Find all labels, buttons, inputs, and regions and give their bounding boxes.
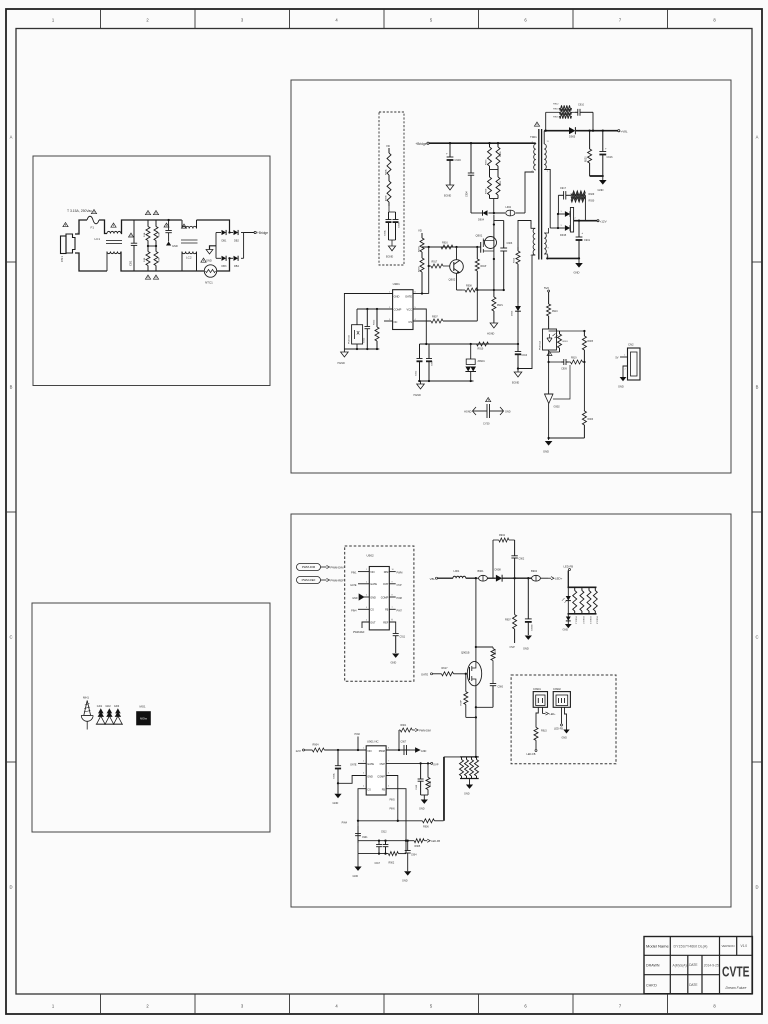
svg-text:GATE: GATE xyxy=(367,763,374,766)
wire opto cathode xyxy=(547,350,549,394)
svg-text:GND: GND xyxy=(562,737,568,740)
led connector dashed box xyxy=(511,675,616,764)
svg-text:PWM-DIM: PWM-DIM xyxy=(331,565,345,569)
svg-text:CB1: CB1 xyxy=(129,260,133,266)
CVTE slogan Dream Future xyxy=(726,986,747,990)
wire 12V snubber right leg xyxy=(584,195,586,220)
resistor R2B xyxy=(154,246,161,271)
svg-text:LED-FB: LED-FB xyxy=(527,753,536,756)
junction dot boost out xyxy=(513,577,529,579)
dimming controller dashed box xyxy=(345,546,414,681)
net label VD2 xyxy=(418,229,422,233)
wire bridge top row xyxy=(216,232,244,234)
svg-text:GND: GND xyxy=(353,875,359,878)
svg-text:R9L8-4: R9L8-4 xyxy=(595,617,597,625)
wire LED-FB stub xyxy=(567,571,569,588)
svg-text:OVP: OVP xyxy=(383,583,389,586)
junction dot CY1 top xyxy=(167,219,169,221)
svg-text:C905: C905 xyxy=(432,360,434,366)
wire comp rail upper xyxy=(358,840,407,842)
svg-text:VIN: VIN xyxy=(367,750,371,753)
svg-text:A: A xyxy=(10,135,13,140)
junction dot bridge top xyxy=(228,231,230,259)
resistor R916 gate xyxy=(441,242,453,250)
thermistor NTC1 xyxy=(204,265,216,285)
wire Q901B drain xyxy=(475,578,477,661)
wire sense bank bottom bar xyxy=(460,778,479,780)
wire AC top rail after LC2 xyxy=(197,220,230,233)
svg-text:U901: U901 xyxy=(393,282,401,286)
svg-text:REF: REF xyxy=(383,621,388,624)
svg-text:GND: GND xyxy=(421,750,427,753)
port PWM-REF xyxy=(297,577,345,584)
ferrite bead L902 xyxy=(506,206,515,216)
svg-text:CHK'D: CHK'D xyxy=(646,984,657,988)
svg-text:C901: C901 xyxy=(362,837,368,839)
capacitor C901 12V filter xyxy=(576,221,591,259)
shunt regulator G902 TL431 xyxy=(545,365,571,440)
svg-text:OVP: OVP xyxy=(433,762,439,766)
svg-text:R90A: R90A xyxy=(385,169,388,175)
ground GND C904 xyxy=(402,871,411,882)
wire lower diode row xyxy=(550,227,565,229)
resistor R90B startup xyxy=(386,177,392,206)
wire comp vertical left xyxy=(357,821,359,854)
svg-text:CS: CS xyxy=(367,789,371,792)
ferrite bead B901 xyxy=(476,569,496,581)
svg-text:B902: B902 xyxy=(531,569,538,573)
wire gate vertical main xyxy=(428,247,430,294)
resistor R905b fb xyxy=(406,839,440,848)
port PWM-DIM xyxy=(297,564,345,571)
title block DATE 2 xyxy=(689,983,697,987)
wire upper diode row xyxy=(557,213,565,229)
svg-text:EGND: EGND xyxy=(386,256,393,259)
svg-text:LED+: LED+ xyxy=(555,577,563,581)
wire AC top rail xyxy=(75,220,107,234)
row tick dividers xyxy=(6,262,762,762)
net label GATE entry xyxy=(421,673,442,677)
svg-text:C90A: C90A xyxy=(333,773,336,779)
title block version value xyxy=(741,944,748,948)
svg-text:C904: C904 xyxy=(411,855,417,857)
svg-text:DRAWN: DRAWN xyxy=(646,964,660,968)
svg-text:C90B: C90B xyxy=(399,222,401,228)
svg-text:CN1: CN1 xyxy=(60,256,64,262)
resistor R906fb xyxy=(582,362,593,438)
wire aux bottom pin xyxy=(518,255,535,369)
snubber R900 C900 xyxy=(476,647,504,707)
wire 12V snubber left leg xyxy=(557,195,559,214)
wire clamp mid bar xyxy=(490,169,499,171)
svg-text:C: C xyxy=(9,635,12,640)
warning triangle above CY1 xyxy=(164,223,169,227)
wire U901 pin2 COMP xyxy=(357,308,393,310)
diode DB2 xyxy=(234,230,240,243)
svg-text:GND: GND xyxy=(464,793,470,796)
svg-text:A(M)G(A)B: A(M)G(A)B xyxy=(673,964,690,968)
svg-text:PIN1: PIN1 xyxy=(351,572,357,575)
diode D915 dual rectifier xyxy=(560,208,577,237)
svg-text:Q902: Q902 xyxy=(449,278,456,282)
fuse rating label T3.15A 250Vac xyxy=(67,209,92,213)
svg-text:LED+: LED+ xyxy=(550,713,557,716)
svg-text:HGND: HGND xyxy=(414,394,422,397)
svg-text:+V8L: +V8L xyxy=(621,129,628,133)
svg-text:R916: R916 xyxy=(442,242,448,245)
svg-text:PC901-A: PC901-A xyxy=(539,341,542,350)
svg-text:V8L: V8L xyxy=(430,577,436,581)
ic U902 pin text xyxy=(370,571,388,624)
wire U902 pin4 xyxy=(351,609,369,612)
svg-text:G902: G902 xyxy=(554,406,561,409)
resistor R906b xyxy=(422,819,443,829)
ic U901B xyxy=(366,740,386,796)
net label VD top xyxy=(386,144,390,148)
svg-text:R1A: R1A xyxy=(143,232,146,237)
wire sense to CS row xyxy=(444,757,460,821)
capacitor C916 output xyxy=(599,131,613,176)
capacitor C90B startup xyxy=(389,212,401,246)
ground bar secondary output xyxy=(590,175,604,177)
transistor Q901B boost MOSFET xyxy=(461,651,482,686)
warning triangle above CB1 xyxy=(129,233,134,237)
svg-text:R90F: R90F xyxy=(500,180,502,186)
capacitor C905 VCC xyxy=(426,344,434,381)
resistor R901fb xyxy=(549,331,569,352)
resistor R901dim xyxy=(399,724,431,750)
wire Q902 collector xyxy=(456,247,458,260)
ground GND ovp xyxy=(419,800,428,811)
svg-text:DIM: DIM xyxy=(384,571,389,574)
svg-text:R902: R902 xyxy=(389,862,395,865)
resistor R90H gate chain b xyxy=(419,255,425,294)
resistor R917 base xyxy=(428,261,450,269)
wire CN2 pin1 xyxy=(615,355,627,360)
column tick dividers xyxy=(101,9,668,1014)
wire VCC ground rail xyxy=(418,380,474,382)
svg-text:C902: C902 xyxy=(519,558,525,561)
ground GND CN902 xyxy=(562,730,570,740)
title block DATE 1 xyxy=(689,963,697,967)
inductor L901 xyxy=(453,569,476,578)
svg-text:C: C xyxy=(755,635,758,640)
svg-text:R90H: R90H xyxy=(419,266,421,272)
transformer T901 secondary winding xyxy=(544,141,549,173)
svg-text:PIN5: PIN5 xyxy=(390,800,396,802)
svg-text:C912: C912 xyxy=(381,832,387,834)
resistor R90E clamp c xyxy=(486,170,492,199)
svg-text:PC901-B: PC901-B xyxy=(349,335,351,344)
svg-text:COMP: COMP xyxy=(381,596,389,599)
wire opto rail xyxy=(344,348,379,350)
ground GND C905E xyxy=(523,636,532,651)
ic U902 pin numbers xyxy=(366,569,395,621)
junction dot boost switch node xyxy=(475,577,477,579)
svg-text:R906: R906 xyxy=(588,419,594,421)
warning triangle at CN1 xyxy=(63,223,68,227)
wire U901B pin8 PWM xyxy=(386,749,410,751)
capacitor C90A startup xyxy=(384,206,396,240)
resistor R91P gate pulldown xyxy=(475,247,486,290)
wire Q901 drain channel xyxy=(493,215,495,292)
svg-text:VIN: VIN xyxy=(370,571,374,574)
ground flag U902 pin3 xyxy=(352,594,369,600)
svg-text:C917: C917 xyxy=(560,187,567,190)
ic U902 xyxy=(367,554,390,630)
wire U901B pin3 GND xyxy=(338,776,366,784)
diode D908 boost xyxy=(495,568,515,582)
wire pin7 to lower diode row xyxy=(544,170,550,229)
ground GND C911 xyxy=(391,654,400,665)
resistor R91C xyxy=(547,292,559,329)
ground EGND bulk cap xyxy=(444,185,454,198)
ground GND TL431 xyxy=(543,441,552,454)
capacitor C912 comp xyxy=(364,309,371,349)
warning triangle above LC1 xyxy=(111,223,116,227)
svg-text:GD3: GD3 xyxy=(114,704,120,708)
svg-text:C917: C917 xyxy=(375,863,381,865)
capacitor C904 clamp xyxy=(466,143,475,213)
ground lugs GD1 GD2 GD3 xyxy=(96,704,123,724)
net stub PIN5 PIN6 xyxy=(390,800,396,811)
svg-text:OVP: OVP xyxy=(380,763,386,766)
junction dots discharge resistors xyxy=(147,245,157,247)
wire FB row xyxy=(549,361,561,363)
svg-text:CS: CS xyxy=(370,609,374,612)
svg-text:R90E: R90E xyxy=(486,188,488,194)
node +V8L xyxy=(618,129,628,133)
resistor R907 CS xyxy=(431,316,477,324)
wire CN901 pin1 xyxy=(536,707,538,727)
svg-text:R914: R914 xyxy=(514,257,516,263)
capacitor CY1 Y-cap with GND xyxy=(165,220,177,248)
wire lower secondary pins xyxy=(544,228,548,258)
svg-text:C90B: C90B xyxy=(416,784,418,790)
svg-text:R906: R906 xyxy=(423,826,429,829)
svg-text:R91C: R91C xyxy=(552,311,558,313)
svg-text:GND: GND xyxy=(523,647,529,651)
svg-text:DB4: DB4 xyxy=(234,265,239,268)
resistor R905fb xyxy=(560,330,594,362)
svg-text:Dream Future: Dream Future xyxy=(726,986,747,990)
transistor Q901 MOSFET xyxy=(476,234,497,253)
svg-text:R908: R908 xyxy=(466,285,472,288)
net label LED-FB top xyxy=(564,565,574,571)
ground GND output xyxy=(598,176,607,192)
resistor R90F clamp d xyxy=(496,170,502,199)
svg-text:D: D xyxy=(755,885,758,890)
svg-text:R905: R905 xyxy=(415,845,421,848)
svg-text:R912: R912 xyxy=(553,104,559,106)
svg-text:GND: GND xyxy=(598,188,604,192)
svg-text:GATE: GATE xyxy=(405,295,412,299)
svg-text:D: D xyxy=(9,885,12,890)
svg-text:GND: GND xyxy=(574,271,580,275)
svg-text:DB2: DB2 xyxy=(234,240,239,243)
svg-text:T 3.15A, 250Vac: T 3.15A, 250Vac xyxy=(67,209,92,213)
svg-text:PIN7: PIN7 xyxy=(397,609,403,612)
transformer T901 core xyxy=(539,129,542,260)
resistor R90P gate pulldown xyxy=(461,673,476,718)
svg-text:DB3: DB3 xyxy=(222,265,227,268)
svg-text:HGND: HGND xyxy=(464,411,472,414)
wire AC top rail after LC1 xyxy=(121,220,181,234)
resistor R920 output bleeder xyxy=(586,131,592,176)
svg-text:CN2: CN2 xyxy=(628,343,634,347)
svg-text:MGfw: MGfw xyxy=(140,717,147,721)
svg-text:2014-9-25: 2014-9-25 xyxy=(704,964,719,968)
wire 12V return rail xyxy=(546,257,580,259)
svg-text:D915: D915 xyxy=(560,233,567,237)
svg-text:F1: F1 xyxy=(91,226,95,230)
svg-text:GND: GND xyxy=(367,775,373,778)
connector CN2 xyxy=(628,343,641,381)
wire bridge bottom row xyxy=(216,257,244,259)
wire gate to Q901 xyxy=(477,246,480,248)
svg-text:OUT: OUT xyxy=(370,621,376,624)
svg-text:R900: R900 xyxy=(495,649,497,655)
diode DB3 xyxy=(222,256,227,268)
logo block MG1 xyxy=(137,705,151,726)
wire output rail +V8L xyxy=(544,130,617,132)
svg-text:Q901B: Q901B xyxy=(461,651,470,655)
svg-text:PIN2: PIN2 xyxy=(355,733,361,736)
svg-text:R917: R917 xyxy=(432,261,438,264)
wire U902 pin7 FB xyxy=(389,609,402,612)
ic U901 PWM controller xyxy=(393,282,413,330)
wire clamp bottom bar xyxy=(490,199,499,214)
svg-text:R917: R917 xyxy=(442,667,449,670)
wire LED bank top bar xyxy=(568,586,597,588)
diode D904 clamp xyxy=(478,210,488,221)
wire aux top pin xyxy=(518,221,535,248)
capacitor C911 ref xyxy=(393,633,406,654)
ic U901 pin text xyxy=(394,295,413,325)
diode DB1 xyxy=(222,230,227,243)
resistor R90B2 ovp xyxy=(426,763,432,795)
wire U901B pin6 COMP xyxy=(386,776,398,821)
diode D906 VCC feed xyxy=(512,247,521,344)
wire CS row to sense bank xyxy=(443,757,445,821)
ground GND 12V xyxy=(574,258,583,274)
svg-text:CY50: CY50 xyxy=(483,422,490,426)
ground GND sense bank xyxy=(464,779,473,796)
svg-text:R929: R929 xyxy=(589,193,595,196)
svg-text:R930: R930 xyxy=(589,200,595,203)
fuse F1 xyxy=(87,216,99,229)
resistor sense bank RS1-RS4 xyxy=(460,757,479,779)
svg-text:C911: C911 xyxy=(400,636,406,639)
node +Bridge output xyxy=(244,231,269,235)
mounting hole MH1 xyxy=(81,696,93,730)
svg-text:HGND: HGND xyxy=(338,362,346,365)
svg-text:GND: GND xyxy=(206,259,212,263)
svg-text:C901: C901 xyxy=(584,239,591,242)
svg-text:R90C: R90C xyxy=(486,159,488,165)
svg-text:C902: C902 xyxy=(416,370,418,376)
optocoupler PC901-A xyxy=(539,329,558,350)
warning triangle above F1 xyxy=(91,210,96,214)
row letters A-D xyxy=(9,135,758,890)
svg-text:C912: C912 xyxy=(364,337,366,343)
svg-text:OVP: OVP xyxy=(510,646,516,649)
wire LED bank bottom bar xyxy=(568,613,597,615)
wire U902 pin6 REF xyxy=(389,619,395,633)
svg-text:GND: GND xyxy=(402,880,408,883)
common mode choke LC1 xyxy=(94,231,122,253)
svg-text:U901 NC: U901 NC xyxy=(367,740,379,744)
capacitor C905E out xyxy=(525,578,534,635)
transformer T901 primary winding xyxy=(532,142,536,173)
svg-text:R913: R913 xyxy=(553,109,559,111)
svg-text:C904: C904 xyxy=(466,191,469,197)
capacitor C906 drain snubber xyxy=(494,221,513,292)
net label 12V entry xyxy=(296,749,313,753)
svg-text:C910: C910 xyxy=(578,104,585,107)
svg-text:DB1: DB1 xyxy=(222,240,227,243)
resistor R904 input xyxy=(312,744,366,753)
capacitor C901b xyxy=(355,826,368,843)
svg-text:NC: NC xyxy=(394,320,398,324)
svg-text:D906: D906 xyxy=(512,310,514,316)
resistor R922 comp xyxy=(374,309,380,349)
svg-text:R2B: R2B xyxy=(159,257,161,262)
resistor bank R9L1-R9L4 xyxy=(573,587,598,614)
svg-text:A: A xyxy=(756,135,759,140)
svg-text:D908: D908 xyxy=(495,568,502,572)
capacitor C903 bulk xyxy=(446,143,461,185)
svg-text:R90B: R90B xyxy=(430,780,432,786)
svg-text:R90G: R90G xyxy=(419,246,421,252)
svg-text:PIN8: PIN8 xyxy=(397,597,403,600)
warning triangle below opto xyxy=(547,352,552,356)
svg-text:PWM: PWM xyxy=(379,750,385,753)
transformer T901 aux winding xyxy=(531,223,536,257)
wire U901B pin2 GATE xyxy=(350,763,366,766)
capacitor C916B VCC xyxy=(515,344,528,370)
svg-text:GATE: GATE xyxy=(350,584,357,587)
svg-text:VD: VD xyxy=(418,229,422,233)
warning triangles below discharge resistors xyxy=(145,275,158,279)
wire primary top pin xyxy=(534,142,536,144)
resistor R908 xyxy=(462,285,478,293)
svg-text:PWM-REF: PWM-REF xyxy=(353,631,365,634)
svg-text:C916: C916 xyxy=(607,156,614,159)
wire VCC rail xyxy=(420,343,520,345)
svg-text:C905E: C905E xyxy=(532,624,534,631)
ic U901 pin numbers xyxy=(389,292,417,322)
svg-text:PWM-DIM: PWM-DIM xyxy=(302,565,316,569)
ground GND comp left xyxy=(353,854,362,878)
svg-text:GND: GND xyxy=(563,629,569,632)
led D9L2 sense xyxy=(566,614,571,624)
warning triangle above NTC1 xyxy=(201,258,206,262)
svg-text:HGND: HGND xyxy=(487,333,495,336)
svg-text:DATE: DATE xyxy=(689,963,697,967)
svg-text:R907: R907 xyxy=(432,316,438,319)
svg-text:R901: R901 xyxy=(401,724,407,727)
svg-text:VCC: VCC xyxy=(407,308,413,312)
startup network dashed box xyxy=(379,112,404,265)
svg-text:D905: D905 xyxy=(569,135,576,139)
svg-text:OVP: OVP xyxy=(397,584,402,587)
svg-text:+Bridge: +Bridge xyxy=(257,231,268,235)
svg-text:PIN4: PIN4 xyxy=(342,822,348,825)
svg-text:R90D: R90D xyxy=(500,151,502,157)
CVTE logo xyxy=(722,965,750,981)
resistor R91S current sense xyxy=(492,291,503,323)
